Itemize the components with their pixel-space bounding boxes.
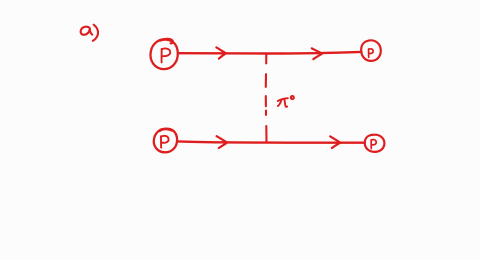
arrow bottom-2 <box>330 136 340 148</box>
P (bottom-right) <box>371 140 376 149</box>
fermion line top <box>178 52 362 54</box>
fermion line bottom <box>177 141 364 142</box>
pen hook on top-left circle <box>164 39 173 43</box>
label pi0 <box>278 96 294 107</box>
pen overlap on bottom-left circle <box>161 129 172 130</box>
arrow top-1 <box>216 47 226 58</box>
arrow bottom-1 <box>217 136 228 148</box>
P (bottom-left) <box>161 136 169 148</box>
vertex circle (bottom-right proton) <box>365 135 385 152</box>
vertex circle (top-right proton) <box>361 40 381 61</box>
P (top-left) <box>162 48 171 62</box>
arrow top-2 <box>312 48 322 59</box>
P (top-right) <box>369 49 374 57</box>
vertex circle (top-left proton) <box>150 39 177 69</box>
pion propagator (dashed) <box>265 54 268 142</box>
vertex circle (bottom-left proton) <box>154 129 177 153</box>
label a) <box>81 25 98 41</box>
